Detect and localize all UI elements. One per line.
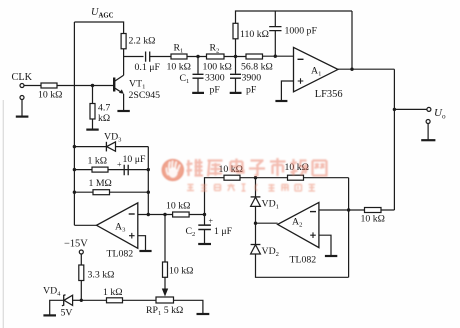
watermark char shi: [270, 158, 286, 176]
ground VD4: [43, 314, 56, 316]
junction rail VD3: [73, 145, 76, 148]
watermark small char 4: [228, 184, 235, 191]
pin A1 plus sign: [298, 78, 304, 84]
svg-text:VD1: VD1: [262, 199, 279, 211]
node Uo ground terminal: [426, 120, 430, 124]
watermark small char 8: [309, 185, 316, 192]
transistor VT1 emitter arrowhead: [119, 89, 124, 93]
node CLK input terminal: [20, 84, 24, 88]
svg-text:VD4: VD4: [43, 286, 61, 298]
svg-text:VT1: VT1: [129, 79, 145, 91]
watermark logo circle: [162, 159, 184, 181]
ground pot: [197, 313, 210, 315]
pin A1 minus sign: [298, 58, 304, 60]
svg-text:R1: R1: [174, 43, 184, 55]
ground: [16, 115, 29, 117]
svg-text:0.1 μF: 0.1 μF: [135, 62, 161, 73]
resistor 3.3k: [79, 265, 84, 281]
svg-text:10 kΩ: 10 kΩ: [169, 266, 193, 277]
ground emitter: [117, 110, 129, 112]
resistor 4.7k: [90, 104, 95, 120]
ground A1 plus: [275, 100, 287, 102]
svg-text:2SC945: 2SC945: [129, 90, 161, 101]
resistor 10k A3 input: [173, 212, 190, 217]
op-amp U A3 triangle left pointing: [97, 203, 138, 248]
svg-text:VD2: VD2: [262, 246, 279, 258]
ground: [86, 129, 98, 131]
diode VD1 triangle up: [251, 197, 261, 206]
watermark small char 6: [282, 185, 289, 192]
junction right vertical 1M: [147, 191, 150, 194]
diode VD2 cathode bar: [251, 244, 261, 246]
pin A2 minus sign: [310, 211, 316, 213]
wire 3900pF to ground: [235, 78, 237, 92]
wire 3.3k to VD4 node: [80, 281, 82, 301]
watermark char wei: [187, 159, 204, 176]
wire A2 plus to ground: [319, 235, 331, 255]
svg-text:110 kΩ: 110 kΩ: [240, 29, 269, 40]
svg-text:CLK: CLK: [12, 72, 33, 83]
diode VD4 zener bar: [62, 295, 66, 306]
svg-text:1 kΩ: 1 kΩ: [88, 156, 108, 167]
wire C2 to ground: [204, 230, 206, 244]
svg-text:+: +: [117, 160, 122, 169]
svg-text:10 kΩ: 10 kΩ: [361, 214, 385, 225]
junction rail 1k: [73, 168, 76, 171]
wire rectifier right vertical: [348, 178, 350, 278]
capacitor 1000pF plates: [269, 27, 281, 31]
wire C1 to ground: [197, 78, 199, 92]
wire 1k to pot: [123, 299, 157, 301]
capacitor C1 plates: [193, 74, 204, 78]
junction C1 node: [196, 55, 199, 58]
wire C1 node down: [197, 57, 199, 74]
wire 1000pF vertical lower: [274, 31, 276, 56]
wire VD4 to ground: [50, 300, 64, 315]
wiper arrowhead: [162, 289, 168, 297]
svg-text:LF356: LF356: [315, 89, 343, 100]
svg-text:1 kΩ: 1 kΩ: [103, 287, 123, 298]
resistor 10k wiper: [163, 262, 168, 277]
wire A1 output: [338, 68, 394, 70]
pin A2 plus sign: [310, 232, 316, 238]
svg-text:10 kΩ: 10 kΩ: [38, 90, 62, 101]
node CLK ground terminal: [20, 96, 24, 100]
svg-text:VD3: VD3: [104, 132, 122, 144]
svg-text:−15V: −15V: [64, 239, 88, 250]
wire pot right to ground: [174, 300, 203, 313]
wire 1000pF to top rail: [274, 11, 276, 27]
resistor 10k rect A: [224, 175, 240, 180]
wire 4.7k to ground: [92, 119, 94, 129]
resistor 2.2k: [121, 34, 126, 49]
svg-text:pF: pF: [210, 85, 221, 96]
watermark char dian: [231, 159, 244, 173]
wire A3 plus input to ground: [138, 236, 146, 251]
potentiometer RP1 body: [156, 297, 174, 303]
op-amp U A1 triangle: [294, 47, 339, 91]
svg-text:100 kΩ: 100 kΩ: [203, 62, 232, 73]
ground A2 plus: [325, 255, 337, 257]
wire A3 minus input line: [138, 214, 205, 216]
junction C2 node: [203, 213, 206, 216]
wire right vertical of AGC feedback: [147, 147, 149, 215]
wire resistor to base node: [57, 85, 113, 87]
junction minus pot branch: [163, 213, 166, 216]
svg-text:kΩ: kΩ: [98, 113, 110, 124]
svg-text:1 MΩ: 1 MΩ: [89, 178, 112, 189]
junction Uo node: [393, 108, 396, 111]
wire node down to 3900pF: [235, 57, 237, 74]
svg-text:10 kΩ: 10 kΩ: [166, 201, 190, 212]
wire CLK terminal to resistor: [24, 85, 41, 87]
ground C2: [198, 243, 211, 245]
wire to Uo terminal: [394, 108, 427, 110]
diode VD1 cathode bar: [251, 196, 261, 198]
watermark logo hand fingers: [166, 161, 179, 174]
wire node up to 110k: [235, 39, 237, 57]
wire A2 feedback line: [349, 209, 395, 211]
wire A2 output to apex: [256, 222, 278, 224]
watermark small char C: [255, 185, 257, 191]
wire terminal to 3.3k: [80, 254, 82, 265]
wire 0.1uF to R1: [150, 56, 171, 58]
wire Uo ground terminal down: [427, 124, 429, 140]
wire base node down to 4.7k: [92, 86, 94, 104]
junction 1000pF node: [274, 55, 277, 58]
svg-text:56.8 kΩ: 56.8 kΩ: [241, 62, 273, 73]
svg-text:C1: C1: [180, 73, 190, 85]
wire VD1 top lead: [255, 178, 257, 197]
wire R2 to 56.8k: [224, 56, 246, 58]
ground 3900pF: [230, 92, 242, 94]
watermark small char 5: [269, 184, 275, 191]
wire collector node to 0.1uF: [124, 56, 144, 58]
junction VD4 node: [80, 299, 83, 302]
wire A2 minus input: [319, 209, 349, 211]
junction feedback node: [350, 68, 353, 71]
watermark small char 3: [215, 185, 221, 191]
svg-text:10 μF: 10 μF: [123, 154, 146, 165]
transistor VT1 emitter stroke with arrow: [114, 88, 122, 93]
diode VD3 triangle: [107, 142, 116, 151]
wire 110k to top rail: [236, 11, 353, 23]
wire VD2 top lead: [255, 223, 257, 244]
watermark logo ring: [162, 159, 183, 180]
watermark logo hand palm: [168, 167, 177, 177]
wire top rail right corner down to output: [351, 11, 353, 69]
diode VD3 cathode bar: [105, 142, 107, 152]
svg-text:1000 pF: 1000 pF: [285, 26, 318, 37]
wire emitter down: [123, 94, 125, 111]
watermark char ku: [208, 161, 223, 177]
pin A3 plus sign: [129, 233, 135, 239]
svg-text:UAGC: UAGC: [91, 7, 114, 19]
junction VD1 top node: [254, 176, 257, 179]
wire C2 node up to rectifier line: [205, 178, 349, 215]
svg-text:1 μF: 1 μF: [214, 226, 233, 237]
node minus15V terminal: [79, 250, 83, 254]
wire C2 node down: [204, 215, 206, 225]
wire terminal to ground: [21, 100, 23, 117]
svg-text:TL082: TL082: [107, 249, 134, 260]
resistor 10k rect B: [288, 175, 304, 180]
ground A3 plus: [139, 250, 151, 252]
transistor Q VT1 base bar: [113, 78, 115, 92]
capacitor 10uF plates: [124, 165, 128, 175]
svg-text:5V: 5V: [61, 308, 73, 319]
junction 3900pF node: [234, 55, 237, 58]
capacitor C2 plates: [198, 225, 211, 229]
WATERMARK: [162, 159, 184, 181]
svg-text:4.7: 4.7: [98, 103, 110, 114]
svg-text:+: +: [209, 217, 214, 226]
wire VD1 bottom lead: [255, 206, 257, 223]
junction right vertical 1k: [147, 168, 150, 171]
svg-text:Uo: Uo: [434, 107, 446, 120]
transistor VT1 collector stroke: [114, 75, 123, 81]
wire A1 plus input to ground: [281, 81, 293, 100]
wire left AGC rail: [73, 22, 75, 225]
junction minus vertical: [147, 213, 150, 216]
svg-text:TL082: TL082: [290, 255, 317, 266]
wire VD4 node to diode: [73, 299, 82, 301]
resistor 110k: [233, 23, 238, 39]
resistor 1k feedback: [92, 167, 108, 172]
wire pot wiper vertical from A3 minus: [164, 215, 166, 263]
resistor R2: [207, 54, 225, 59]
capacitor 0.1uF plates: [146, 52, 150, 62]
resistor 1k bottom: [107, 298, 123, 303]
ground Uo: [421, 139, 435, 141]
wire 1M line: [74, 191, 148, 193]
capacitor 3900pF plates: [230, 74, 241, 78]
wire 1k 10uF line: [74, 169, 148, 171]
svg-text:R2: R2: [210, 43, 220, 55]
junction base node: [91, 84, 94, 87]
watermark small char 7: [295, 185, 302, 192]
watermark char zi: [249, 161, 265, 176]
watermark char wang: [313, 161, 328, 176]
wire VD3 line: [74, 146, 148, 148]
wire VD2 bottom to rectifier return: [256, 254, 349, 277]
watermark small char 2: [201, 184, 207, 191]
wire R1 to R2: [187, 56, 207, 58]
svg-text:10 kΩ: 10 kΩ: [167, 62, 191, 73]
watermark small char I: [242, 184, 246, 191]
junction A2 minus node: [347, 208, 350, 211]
resistor 56.8k: [246, 54, 263, 59]
wire 2.2k top to UAGC rail: [74, 22, 123, 34]
svg-text:2.2 kΩ: 2.2 kΩ: [129, 36, 156, 47]
pin A3 minus sign: [129, 213, 135, 215]
ground C1: [192, 92, 204, 94]
scan artifact left edge line: [2, 100, 4, 328]
resistor 10k A2 feedback: [365, 208, 382, 213]
resistor 10k input: [41, 83, 57, 88]
junction A2 output node: [254, 222, 257, 225]
wire collector up to 2.2k: [123, 49, 125, 76]
diode VD4 triangle left: [64, 295, 73, 305]
resistor 1M: [93, 190, 110, 195]
svg-text:C2: C2: [186, 226, 196, 238]
wire 56.8k to A1 minus input: [263, 55, 294, 57]
svg-text:3900: 3900: [242, 73, 262, 84]
wire A3 output to rail: [74, 224, 96, 226]
wire output down right side: [393, 69, 395, 210]
svg-text:3300: 3300: [205, 73, 225, 84]
op-amp U A2 triangle left pointing: [278, 202, 319, 247]
resistor R1: [171, 54, 187, 59]
node Uo terminal: [427, 107, 431, 111]
svg-text:RP1 5 kΩ: RP1 5 kΩ: [146, 305, 183, 317]
wire 10k wiper to arrow: [164, 277, 166, 290]
watermark char chang: [291, 159, 308, 176]
wire VD4 node to 1k: [81, 299, 106, 301]
diode VD2 triangle up: [251, 245, 261, 254]
svg-text:3.3 kΩ: 3.3 kΩ: [88, 270, 115, 281]
junction rail 1M: [73, 191, 76, 194]
watermark small char 1: [187, 185, 194, 191]
svg-text:pF: pF: [246, 85, 257, 96]
